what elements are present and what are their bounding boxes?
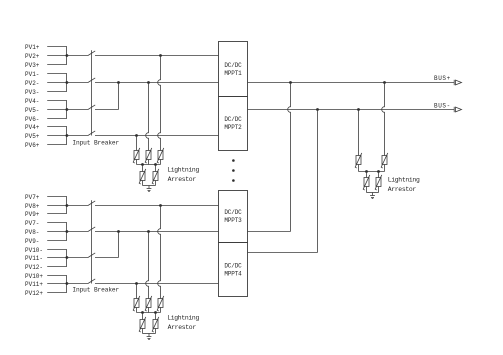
wire bottom row2 bottoms [142, 329, 144, 334]
junction group H3 mid [66, 256, 69, 259]
junction group H4 mid [66, 282, 69, 285]
wire row2 bottoms [142, 181, 144, 186]
svg-text:DC/DC: DC/DC [224, 209, 242, 216]
wire PV1+ stub [47, 46, 67, 48]
wire BUS- from MPPT2 [248, 109, 455, 111]
svg-text:PV9-: PV9- [25, 238, 39, 245]
wire arrestor bar1 top-left [137, 164, 161, 166]
junction group H1 mid [66, 204, 69, 207]
node BUS- off-page arrow [453, 107, 455, 112]
arrestor F8 [364, 178, 369, 187]
junction bar1 left [141, 163, 144, 166]
wire arrestor drop net A2 jumps B2 D2 [158, 206, 161, 299]
wire net C2 riser to net B2 [118, 232, 120, 258]
wire group H2 to breaker [67, 231, 88, 233]
breaker pole H3 [88, 253, 95, 258]
wire PV5+ stub [47, 135, 67, 137]
wire PV7+ stub [47, 196, 67, 198]
wire group bracket G4 [66, 127, 68, 145]
arrestor F11 [146, 299, 151, 308]
wire PV12- stub [47, 266, 67, 268]
svg-text:Lightning: Lightning [167, 167, 199, 174]
wire PV8+ stub [47, 205, 67, 207]
wire arrestor drop net D [136, 136, 138, 151]
breaker linkage G [91, 50, 93, 135]
wire PV7- stub [47, 222, 67, 224]
arrestor F7 [382, 156, 387, 165]
wire PV4+ stub [47, 126, 67, 128]
wire arrestor drop net B2 jumps D2 [146, 232, 149, 299]
svg-text:DC/DC: DC/DC [224, 62, 242, 69]
converter U2 DC/DC MPPT2 box [219, 97, 248, 151]
wire right row2 bottoms [366, 187, 368, 193]
svg-text:BUS+: BUS+ [434, 75, 451, 82]
wire BUS+ arrestor drop jumps BUS- [382, 83, 385, 156]
wire PV3+ stub [47, 64, 67, 66]
wire group H1 to breaker [67, 205, 88, 207]
wire group G1 to breaker [67, 55, 88, 57]
wire net C riser to net B [118, 83, 120, 110]
junction BUS+ arrestor [383, 81, 386, 84]
wire PV9- stub [47, 240, 67, 242]
arrestor F1 [134, 151, 139, 160]
wire net C2 (PV10-12-) [95, 257, 119, 259]
svg-text:PV11-: PV11- [25, 255, 43, 262]
wire arrestor leads row1 [136, 160, 138, 165]
ground bottom-left arrestor [148, 334, 150, 337]
arrestor F9 [376, 178, 381, 187]
arrestor F10 [134, 299, 139, 308]
junction net B2 net C2 merge [117, 230, 120, 233]
breaker pole G2 [88, 78, 95, 83]
svg-text:PV6-: PV6- [25, 116, 39, 123]
svg-text:PV5-: PV5- [25, 107, 39, 114]
wire arrestor bar1 bottom-left [137, 312, 161, 314]
wire PV2- stub [47, 82, 67, 84]
svg-text:PV1-: PV1- [25, 71, 39, 78]
junction BUS- arrestor [357, 108, 360, 111]
wire arrestor bar2 bottom-left [143, 333, 156, 335]
wire arrestor bar1 right [359, 171, 385, 173]
wire group G2 to breaker [67, 82, 88, 84]
svg-text:PV8+: PV8+ [25, 203, 40, 210]
svg-text:PV7+: PV7+ [25, 194, 40, 201]
wire arrestor drop net D2 [136, 284, 138, 299]
junction group H2 mid [66, 230, 69, 233]
junction right bar1 right [377, 170, 380, 173]
breaker pole G3 [88, 105, 95, 110]
wire group H3 to breaker [67, 257, 88, 259]
junction BUS+ MPPT3 feed [289, 81, 292, 84]
svg-text:PV10-: PV10- [25, 247, 43, 254]
svg-text:PV7-: PV7- [25, 220, 39, 227]
svg-text:Arrestor: Arrestor [168, 176, 197, 183]
wire group G3 to breaker [67, 109, 88, 111]
wire group bracket G3 [66, 101, 68, 119]
svg-text:PV11+: PV11+ [25, 281, 43, 288]
breaker linkage H [91, 200, 93, 283]
wire net B2 (PV7-9-) to MPPT3 [95, 231, 219, 233]
junction group G4 mid [66, 134, 69, 137]
junction bottom bar1 right [154, 311, 157, 314]
wire PV11+ stub [47, 283, 67, 285]
svg-text:MPPT3: MPPT3 [224, 217, 242, 224]
svg-text:MPPT1: MPPT1 [224, 70, 242, 77]
wire BUS- arrestor drop [358, 110, 360, 156]
wire net C (PV4-6-) [95, 109, 119, 111]
junction group G1 mid [66, 54, 69, 57]
wire PV9+ stub [47, 213, 67, 215]
wire PV10+ stub [47, 275, 67, 277]
junction net A2 arrestor tap [159, 204, 162, 207]
svg-text:PV2+: PV2+ [25, 53, 40, 60]
wire row2 leads [142, 165, 144, 172]
wire PV8- stub [47, 231, 67, 233]
node ellipsis more converters [232, 159, 235, 162]
svg-text:BUS-: BUS- [434, 103, 451, 110]
breaker pole H1 [88, 201, 95, 206]
svg-text:PV2-: PV2- [25, 80, 39, 87]
wire net A2 (PV7-9+) to MPPT3 [95, 205, 219, 207]
arrestor F14 [153, 320, 158, 329]
arrestor F2 [146, 151, 151, 160]
wire group G4 to breaker [67, 135, 88, 137]
wire right row2 leads [366, 172, 368, 178]
junction bar1 right [154, 163, 157, 166]
converter U1 DC/DC MPPT1 box [219, 42, 248, 97]
wire group bracket H3 [66, 250, 68, 267]
arrestor F5 [153, 172, 158, 181]
svg-text:Arrestor: Arrestor [168, 324, 197, 331]
breaker pole G1 [88, 51, 95, 56]
wire right row1 leads [358, 165, 360, 172]
wire net A (PV1-3+) to MPPT1 [95, 55, 219, 57]
converter U3 DC/DC MPPT3 box [219, 191, 248, 243]
breaker pole H4 [88, 279, 95, 284]
svg-text:PV3+: PV3+ [25, 62, 40, 69]
junction group G2 mid [66, 81, 69, 84]
wire bottom row2 leads [142, 313, 144, 320]
svg-text:PV10+: PV10+ [25, 273, 43, 280]
svg-text:PV4-: PV4- [25, 98, 39, 105]
junction net A arrestor tap [159, 54, 162, 57]
svg-text:Lightning: Lightning [388, 177, 420, 184]
junction net D arrestor tap [135, 134, 138, 137]
wire net D (PV4-6+) to MPPT2 [95, 135, 219, 137]
svg-text:PV3-: PV3- [25, 89, 39, 96]
svg-text:Input Breaker: Input Breaker [72, 286, 119, 293]
wire net B (PV1-3-) to MPPT1 [95, 82, 219, 84]
junction right bar1 left [365, 170, 368, 173]
wire net D2 (PV10-12+) to MPPT4 [95, 283, 219, 285]
wire PV12+ stub [47, 292, 67, 294]
ground right arrestor [372, 193, 374, 196]
junction bottom bar1 left [141, 311, 144, 314]
svg-text:PV6+: PV6+ [25, 142, 40, 149]
wire PV10- stub [47, 249, 67, 251]
svg-text:PV5+: PV5+ [25, 133, 40, 140]
arrestor F6 [356, 156, 361, 165]
junction group G3 mid [66, 108, 69, 111]
wire PV4- stub [47, 100, 67, 102]
arrestor F4 [140, 172, 145, 181]
svg-text:Lightning: Lightning [167, 315, 199, 322]
svg-text:Input Breaker: Input Breaker [72, 139, 119, 146]
svg-text:PV12-: PV12- [25, 264, 43, 271]
svg-text:MPPT4: MPPT4 [224, 270, 242, 277]
svg-text:DC/DC: DC/DC [224, 116, 242, 123]
wire arrestor bar2 top-left [143, 185, 156, 187]
junction BUS- MPPT4 feed [316, 108, 319, 111]
arrestor F12 [158, 299, 163, 308]
ground top-left arrestor [148, 186, 150, 189]
wire PV11- stub [47, 257, 67, 259]
wire MPPT4 output to BUS- [248, 252, 318, 254]
wire MPPT3 output to BUS+ jumps BUS- [248, 231, 291, 233]
wire arrestor drop net A jumps B D [158, 56, 161, 151]
breaker pole G4 [88, 131, 95, 136]
wire group H4 to breaker [67, 283, 88, 285]
wire PV5- stub [47, 109, 67, 111]
wire PV6- stub [47, 118, 67, 120]
wire group bracket H4 [66, 276, 68, 293]
junction net B arrestor tap [147, 81, 150, 84]
svg-text:DC/DC: DC/DC [224, 262, 242, 269]
wire group bracket G1 [66, 47, 68, 65]
wire PV6+ stub [47, 144, 67, 146]
junction net B net C merge [117, 81, 120, 84]
arrestor F13 [140, 320, 145, 329]
converter U4 DC/DC MPPT4 box [219, 243, 248, 297]
svg-text:PV9+: PV9+ [25, 211, 40, 218]
svg-text:PV12+: PV12+ [25, 290, 43, 297]
junction net B2 arrestor tap [147, 230, 150, 233]
wire arrestor bar2 right [367, 192, 379, 194]
wire PV1- stub [47, 73, 67, 75]
wire group bracket H2 [66, 223, 68, 241]
wire PV3- stub [47, 91, 67, 93]
svg-text:Arrestor: Arrestor [388, 186, 417, 193]
arrestor F3 [158, 151, 163, 160]
svg-text:PV1+: PV1+ [25, 44, 40, 51]
svg-text:PV4+: PV4+ [25, 124, 40, 131]
junction net D2 arrestor tap [135, 282, 138, 285]
wire group bracket H1 [66, 197, 68, 214]
svg-text:MPPT2: MPPT2 [224, 124, 242, 131]
svg-text:PV8-: PV8- [25, 229, 39, 236]
wire arrestor drop net B jumps D [146, 83, 149, 151]
wire PV2+ stub [47, 55, 67, 57]
breaker pole H2 [88, 227, 95, 232]
wire bottom row1 leads [136, 308, 138, 313]
node BUS+ off-page arrow [453, 80, 455, 85]
wire group bracket G2 [66, 74, 68, 92]
wire BUS+ from MPPT1 [248, 82, 455, 84]
